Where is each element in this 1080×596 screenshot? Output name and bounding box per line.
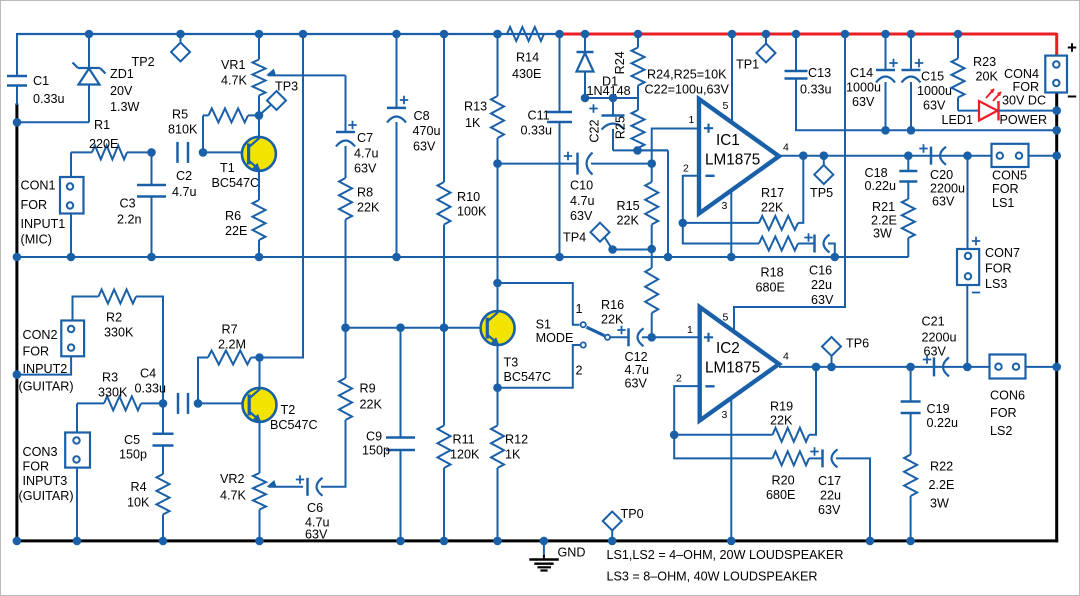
- svg-text:680E: 680E: [756, 281, 785, 295]
- resistor R2: [73, 290, 164, 404]
- node bus C16: [831, 253, 840, 262]
- resistor R9: [339, 328, 352, 420]
- svg-text:330K: 330K: [98, 386, 128, 400]
- capacitor C15: [902, 34, 924, 130]
- node rail R23: [954, 30, 963, 39]
- node rail R10: [440, 30, 449, 39]
- capacitor C18: [899, 156, 917, 199]
- svg-text:C4: C4: [140, 367, 156, 381]
- LED LED1: [979, 89, 1057, 121]
- svg-text:R24,R25=10K: R24,R25=10K: [647, 68, 727, 82]
- node bus left frame: [13, 253, 22, 262]
- svg-text:1: 1: [689, 114, 695, 126]
- node rail C14: [881, 30, 890, 39]
- diode D1 1N4148: [577, 34, 594, 98]
- capacitor C21: [923, 355, 949, 376]
- wire rail to IC2 pin5: [734, 34, 845, 333]
- svg-text:430E: 430E: [512, 67, 541, 81]
- transistor T3: [481, 311, 515, 345]
- svg-text:R13: R13: [464, 100, 487, 114]
- svg-text:0.33u: 0.33u: [33, 92, 65, 106]
- svg-text:0.22u: 0.22u: [865, 179, 897, 193]
- svg-text:2200u: 2200u: [930, 182, 965, 196]
- svg-text:4.7u: 4.7u: [570, 194, 595, 208]
- svg-text:1K: 1K: [505, 448, 521, 462]
- testpoint TP1: [757, 34, 776, 63]
- wire T1 collector: [258, 115, 260, 140]
- node ground frame bottom-left corner: [13, 537, 22, 546]
- svg-text:R25: R25: [614, 116, 628, 139]
- svg-text:63V: 63V: [924, 345, 947, 359]
- svg-text:C1: C1: [33, 74, 49, 88]
- svg-text:63V: 63V: [570, 209, 593, 223]
- svg-text:CON5: CON5: [992, 169, 1027, 183]
- wire T1 base: [203, 151, 249, 153]
- svg-text:22E: 22E: [225, 224, 247, 238]
- svg-text:T2: T2: [281, 403, 296, 417]
- svg-text:63V: 63V: [305, 528, 328, 542]
- svg-text:63V: 63V: [354, 162, 377, 176]
- svg-text:C22: C22: [588, 119, 602, 142]
- svg-text:CON1: CON1: [21, 179, 56, 193]
- node R7/T2 collector: [255, 353, 264, 362]
- node C22 top: [609, 94, 618, 103]
- svg-text:220E: 220E: [89, 137, 118, 151]
- wire T3 emitter: [497, 344, 499, 426]
- node VR1/R5/TP3/T1: [255, 111, 264, 120]
- node bus R6: [255, 253, 264, 262]
- node ground GND symbol: [540, 537, 549, 546]
- testpoint TP2: [171, 34, 190, 62]
- node rail D1: [581, 30, 590, 39]
- node bus C11: [555, 253, 564, 262]
- node ground C17: [866, 537, 875, 546]
- svg-text:ZD1: ZD1: [110, 67, 134, 81]
- svg-text:VR2: VR2: [220, 472, 245, 486]
- node bus R8/R9: [341, 323, 350, 332]
- svg-text:R22: R22: [930, 460, 953, 474]
- connector CON4: [1045, 56, 1067, 93]
- svg-text:1: 1: [687, 324, 693, 336]
- node IC2 pin2 / R19: [670, 431, 679, 440]
- resistor R21: [902, 199, 915, 257]
- svg-text:1000u: 1000u: [917, 84, 952, 98]
- node ground R22: [906, 537, 915, 546]
- svg-text:1000u: 1000u: [846, 81, 881, 95]
- svg-text:CON4: CON4: [1004, 67, 1039, 81]
- svg-text:C21: C21: [922, 315, 945, 329]
- node C14 bus: [881, 126, 890, 135]
- svg-text:1: 1: [576, 302, 583, 316]
- svg-text:LED1: LED1: [942, 113, 974, 127]
- node frame CON2: [13, 370, 22, 379]
- svg-text:3: 3: [722, 409, 728, 421]
- svg-text:TP0: TP0: [621, 507, 644, 521]
- resistor R14: [498, 27, 560, 41]
- svg-text:63V: 63V: [852, 95, 875, 109]
- svg-text:150p: 150p: [362, 444, 390, 458]
- resistor R18: [683, 223, 815, 251]
- svg-text:R1: R1: [94, 118, 110, 132]
- svg-text:C8: C8: [414, 109, 430, 123]
- svg-text:4.7u: 4.7u: [354, 147, 379, 161]
- node rail R13: [493, 30, 502, 39]
- capacitor C19: [901, 367, 921, 455]
- label CON7 minus: [972, 292, 980, 294]
- svg-text:4.7u: 4.7u: [625, 363, 650, 377]
- svg-text:R18: R18: [761, 266, 784, 280]
- node ground R12: [493, 537, 502, 546]
- wire IC1 output: [779, 155, 1057, 157]
- svg-text:BC547C: BC547C: [212, 176, 260, 190]
- wire IC1 pin5 to rail: [731, 34, 733, 124]
- resistor R1: [71, 145, 152, 159]
- svg-text:R8: R8: [357, 186, 373, 200]
- svg-text:1K: 1K: [465, 116, 481, 130]
- wire CON2 to ground frame: [17, 356, 71, 374]
- node bus C8: [392, 253, 401, 262]
- node rail C15: [907, 30, 916, 39]
- svg-text:1.3W: 1.3W: [110, 100, 140, 114]
- node R25 bottom: [633, 146, 642, 155]
- svg-text:C22=100u,63V: C22=100u,63V: [645, 83, 730, 97]
- resistor R12: [491, 426, 504, 541]
- svg-text:C3: C3: [120, 197, 136, 211]
- svg-text:C13: C13: [808, 66, 831, 80]
- capacitor C2: [176, 142, 179, 163]
- svg-text:3: 3: [722, 200, 728, 212]
- node T3 collector / switch: [493, 279, 502, 288]
- wire +V rail red segment: [560, 33, 1057, 36]
- svg-text:TP5: TP5: [810, 186, 833, 200]
- wire C1 column top: [16, 33, 18, 76]
- svg-text:LM1875: LM1875: [705, 152, 760, 169]
- svg-text:20V: 20V: [110, 84, 133, 98]
- svg-text:1N4148: 1N4148: [587, 84, 631, 98]
- wire T2 collector: [259, 358, 261, 392]
- svg-text:R9: R9: [360, 382, 376, 396]
- svg-text:LM1875: LM1875: [705, 360, 760, 377]
- wire T2 emitter to VR2: [259, 420, 261, 473]
- svg-text:C7: C7: [357, 131, 373, 145]
- svg-text:63V: 63V: [625, 377, 648, 391]
- connector CON7: [957, 249, 979, 285]
- node rail TP2: [176, 30, 185, 39]
- node output C20/CON7: [963, 151, 972, 160]
- transistor T2: [243, 388, 277, 422]
- svg-text:FOR: FOR: [992, 182, 1019, 196]
- svg-text:FOR: FOR: [1013, 80, 1040, 94]
- node rail R14 right: [555, 30, 564, 39]
- svg-text:FOR: FOR: [23, 345, 50, 359]
- svg-text:22u: 22u: [811, 278, 832, 292]
- svg-text:R24: R24: [613, 51, 627, 74]
- node rail VR1: [255, 30, 264, 39]
- svg-text:330K: 330K: [104, 326, 134, 340]
- label CON4 plus: [1068, 43, 1076, 51]
- wire IC1 pin2 stub: [683, 176, 699, 223]
- node ground R11: [440, 537, 449, 546]
- node output TP5: [820, 151, 829, 160]
- svg-text:TP1: TP1: [736, 58, 759, 72]
- node D1 anode: [581, 94, 590, 103]
- node ground-frame/ZD1 junction: [13, 118, 22, 127]
- svg-text:(GUITAR): (GUITAR): [19, 489, 74, 503]
- node bus C22/R25 ground drop: [664, 253, 673, 262]
- svg-text:0.33u: 0.33u: [135, 382, 167, 396]
- svg-text:LS2: LS2: [990, 424, 1012, 438]
- wire IC1 pin3 to ground bus: [730, 191, 732, 258]
- svg-text:R4: R4: [131, 480, 147, 494]
- wire CON1 to R1: [70, 152, 72, 177]
- wire R15-R16 through bus: [651, 249, 653, 268]
- svg-text:0.33u: 0.33u: [521, 124, 553, 138]
- svg-text:R19: R19: [770, 400, 793, 414]
- svg-text:FOR: FOR: [21, 198, 48, 212]
- node bus IC1 pin3: [727, 253, 736, 262]
- capacitor C13: [785, 34, 1057, 130]
- resistor R3: [77, 396, 163, 410]
- capacitor C11: [547, 34, 572, 257]
- svg-text:CON3: CON3: [23, 445, 58, 459]
- capacitor C6: [296, 420, 346, 496]
- svg-text:T1: T1: [220, 161, 235, 175]
- wire CON1 to ground bus: [70, 214, 72, 258]
- label CON4 minus: [1068, 96, 1076, 98]
- resistor R20: [674, 435, 822, 466]
- connector CON3: [65, 433, 90, 468]
- node ground CON3: [73, 537, 82, 546]
- wire D1/C22/R24 node: [585, 97, 638, 99]
- connector CON5: [992, 144, 1029, 167]
- svg-text:BC547C: BC547C: [270, 418, 318, 432]
- svg-text:4: 4: [783, 351, 789, 363]
- wire IC2 output: [779, 366, 1057, 368]
- switch S1 contact 1: [581, 322, 586, 327]
- svg-text:INPUT1: INPUT1: [21, 217, 66, 231]
- testpoint TP4: [591, 223, 652, 250]
- svg-text:VR1: VR1: [221, 58, 246, 72]
- testpoint TP3: [259, 91, 286, 115]
- node rail C13: [792, 30, 801, 39]
- node C12/R16/IC2 pin1: [647, 333, 656, 342]
- svg-text:810K: 810K: [168, 123, 198, 137]
- node bus C9: [396, 323, 405, 332]
- svg-text:R7: R7: [222, 323, 238, 337]
- resistor R6 wire from T1 emitter: [258, 169, 260, 200]
- svg-text:20K: 20K: [976, 70, 999, 84]
- wire CON3 to ground: [76, 468, 78, 541]
- svg-text:C5: C5: [124, 433, 140, 447]
- resistor R10: [438, 34, 451, 328]
- svg-text:22K: 22K: [357, 201, 380, 215]
- node rail x303: [299, 30, 308, 39]
- ground frame right black rail: [1055, 93, 1058, 543]
- node R15 bottom / TP4: [647, 245, 656, 254]
- capacitor C1: [7, 75, 27, 78]
- node rail C8: [392, 30, 401, 39]
- wire rail to R7/T2 collector column: [260, 34, 304, 358]
- svg-text:100K: 100K: [457, 205, 487, 219]
- svg-text:22K: 22K: [761, 201, 784, 215]
- svg-text:63V: 63V: [818, 503, 841, 517]
- svg-text:120K: 120K: [450, 448, 480, 462]
- node output C19/C21: [906, 363, 915, 372]
- svg-text:R15: R15: [617, 199, 640, 213]
- wire CON7 minus to IC2 output: [966, 285, 968, 367]
- svg-text:TP2: TP2: [132, 55, 155, 69]
- node ground C9: [396, 537, 405, 546]
- svg-text:C9: C9: [366, 430, 382, 444]
- svg-text:4.7K: 4.7K: [221, 74, 248, 88]
- node IC1 pin2 / R17: [679, 219, 688, 228]
- svg-text:C12: C12: [625, 350, 648, 364]
- svg-text:R3: R3: [102, 371, 118, 385]
- svg-text:C10: C10: [570, 179, 593, 193]
- node ground TP0: [608, 537, 617, 546]
- svg-text:2: 2: [676, 373, 682, 385]
- svg-text:C19: C19: [927, 402, 950, 416]
- svg-text:TP6: TP6: [846, 337, 869, 351]
- wire +V rail blue segment: [17, 33, 560, 35]
- svg-text:R17: R17: [761, 186, 784, 200]
- node output R19: [812, 363, 821, 372]
- svg-text:CON6: CON6: [990, 389, 1025, 403]
- op-amp IC2 LM1875 triangle: [700, 307, 779, 421]
- capacitor C12: [617, 326, 651, 347]
- svg-text:C15: C15: [921, 70, 944, 84]
- capacitor C4: [177, 393, 180, 414]
- node ground IC2 pin3: [727, 537, 736, 546]
- svg-text:R21: R21: [872, 200, 895, 214]
- wire VR1 wiper to C7: [345, 75, 347, 132]
- wire ground bus y257: [17, 256, 908, 258]
- connector CON2: [61, 321, 84, 357]
- node R2/R3/C4/C5: [159, 399, 168, 408]
- svg-text:R11: R11: [453, 433, 475, 447]
- node output C21/CON7/CON6: [963, 363, 972, 372]
- svg-text:T3: T3: [504, 356, 519, 370]
- capacitor C8: [387, 34, 408, 257]
- svg-text:FOR: FOR: [990, 406, 1017, 420]
- switch S1 contact 2: [581, 342, 586, 347]
- switch S1 pole: [605, 335, 610, 340]
- node frame C13 bus: [1052, 126, 1061, 135]
- node rail IC2 supply: [841, 30, 850, 39]
- svg-text:5: 5: [723, 312, 729, 324]
- svg-text:30V DC: 30V DC: [1002, 94, 1046, 108]
- resistor R23: [952, 34, 980, 111]
- capacitor C10: [498, 152, 652, 175]
- svg-text:C20: C20: [930, 168, 953, 182]
- capacitor C7: [336, 121, 357, 178]
- capacitor C9: [386, 328, 415, 541]
- potentiometer VR1: [253, 34, 346, 115]
- svg-text:2.2E: 2.2E: [871, 214, 897, 228]
- svg-text:BC547C: BC547C: [504, 370, 552, 384]
- resistor R8: [339, 178, 352, 328]
- svg-text:10K: 10K: [127, 496, 150, 510]
- wire IC1 pin1: [652, 129, 699, 183]
- wire T2 base: [198, 402, 249, 404]
- svg-text:2: 2: [576, 364, 583, 378]
- svg-text:63V: 63V: [811, 293, 834, 307]
- resistor R22: [904, 455, 917, 541]
- svg-text:R2: R2: [106, 311, 122, 325]
- svg-text:TP4: TP4: [563, 231, 586, 245]
- node output frame CON5: [1052, 151, 1061, 160]
- svg-text:2: 2: [683, 163, 689, 175]
- svg-text:CON2: CON2: [23, 328, 58, 342]
- node C2/R5/T1 base: [199, 148, 208, 157]
- node C4/R7/T2 base: [194, 399, 203, 408]
- node bus C3: [147, 253, 156, 262]
- svg-text:S1: S1: [536, 318, 551, 332]
- switch S1 contact 1 wire: [498, 283, 580, 325]
- node R1/C2/C3: [147, 148, 156, 157]
- node ground VR2: [255, 537, 264, 546]
- node C10/IC1 pin1 column: [647, 159, 656, 168]
- zener diode ZD1: [73, 34, 106, 122]
- resistor R11: [438, 328, 451, 541]
- node rail IC1 pin5: [728, 30, 737, 39]
- node R13/C10: [493, 159, 502, 168]
- svg-text:4.7K: 4.7K: [220, 489, 247, 503]
- svg-text:C6: C6: [307, 501, 323, 515]
- svg-text:150p: 150p: [119, 448, 147, 462]
- svg-text:(GUITAR): (GUITAR): [19, 380, 74, 394]
- svg-text:63V: 63V: [932, 195, 955, 209]
- node TP4 stem: [608, 245, 617, 254]
- wire CON7 plus: [967, 156, 969, 249]
- resistor R25: [632, 98, 669, 150]
- wire T3 collector: [497, 283, 499, 314]
- node T3 emitter / switch2: [493, 383, 502, 392]
- op-amp IC1 LM1875 triangle: [699, 99, 779, 214]
- capacitor C5: [153, 403, 174, 474]
- svg-text:4: 4: [783, 142, 789, 154]
- svg-text:C16: C16: [809, 264, 832, 278]
- svg-text:(MIC): (MIC): [21, 233, 52, 247]
- capacitor C16: [804, 233, 835, 257]
- svg-text:2.2M: 2.2M: [218, 338, 246, 352]
- ground frame left black rail: [15, 104, 18, 543]
- svg-text:0.33u: 0.33u: [800, 83, 832, 97]
- svg-text:FOR: FOR: [985, 262, 1012, 276]
- node ground R4: [159, 537, 168, 546]
- svg-text:R16: R16: [601, 298, 624, 312]
- svg-text:5: 5: [723, 100, 729, 112]
- node rail TP1: [762, 30, 771, 39]
- svg-text:4.7u: 4.7u: [172, 185, 197, 199]
- svg-text:470u: 470u: [413, 124, 441, 138]
- svg-text:63V: 63V: [923, 99, 946, 113]
- ground symbol GND: [529, 541, 559, 571]
- node bus R11: [440, 323, 449, 332]
- svg-text:C18: C18: [865, 166, 888, 180]
- wire pole to C12: [611, 336, 629, 338]
- node output R17: [799, 151, 808, 160]
- svg-text:63V: 63V: [413, 140, 436, 154]
- capacitor C17: [810, 447, 870, 541]
- svg-text:3W: 3W: [873, 227, 892, 241]
- svg-text:22K: 22K: [617, 214, 640, 228]
- svg-text:LS1: LS1: [992, 196, 1014, 210]
- svg-text:R12: R12: [505, 433, 528, 447]
- svg-text:22K: 22K: [360, 398, 383, 412]
- svg-text:0.22u: 0.22u: [927, 416, 959, 430]
- connector CON6: [990, 355, 1026, 379]
